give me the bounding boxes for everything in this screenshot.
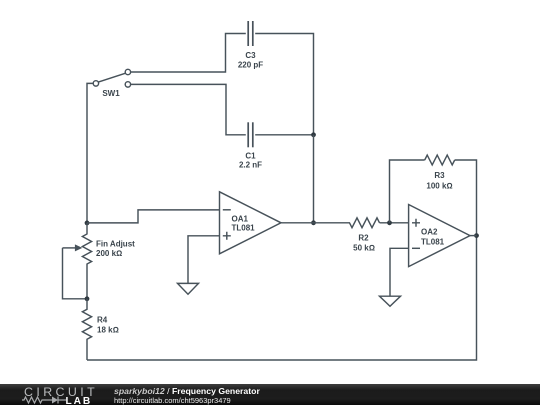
svg-text:C3: C3: [245, 51, 256, 60]
junction: OA1 output node: [311, 220, 316, 225]
svg-text:R4: R4: [97, 315, 108, 324]
wire: SW1 throw 2 to C1 left plate: [131, 84, 246, 134]
junction: C1/C3 right node: [311, 132, 316, 137]
junction: R2 / feedback node: [387, 220, 392, 225]
footer title: [114, 386, 260, 396]
svg-text:SW1: SW1: [102, 89, 120, 98]
wire: OA2 inverting input to ground: [390, 248, 409, 296]
resistor R3 100 kOhm: [425, 155, 455, 165]
svg-text:50 kΩ: 50 kΩ: [353, 243, 375, 252]
wire: pot top node to OA1 inverting input: [87, 210, 220, 223]
wire: bottom rail from R4 to OA2 output: [87, 236, 477, 360]
junction: pot bottom / R4 top: [85, 296, 90, 301]
svg-text:OA1: OA1: [232, 214, 249, 223]
wire: C1 right plate to vertical rail: [255, 134, 313, 136]
wire: OA2 output stub: [470, 235, 477, 237]
resistor R4 18 kOhm: [82, 299, 91, 360]
wire: SW1 common stub and left rail down to pot: [87, 83, 93, 223]
wire: SW1 throw 1 to C3 left plate: [131, 34, 246, 73]
svg-text:18 kΩ: 18 kΩ: [97, 325, 119, 334]
wire: R2 to OA2 non-inverting input: [380, 222, 409, 224]
svg-text:2.2 nF: 2.2 nF: [239, 161, 262, 170]
wire: R3 right down to OA2 output node: [455, 160, 477, 236]
junction: left rail / pot top: [85, 221, 90, 226]
resistor R2 50 kOhm: [350, 218, 380, 228]
svg-text:Fin Adjust: Fin Adjust: [96, 239, 135, 248]
footer url: [114, 396, 231, 405]
CircuitLab logo: [24, 385, 98, 399]
svg-text:C1: C1: [245, 151, 256, 160]
wire: OA1 output to R2: [281, 222, 350, 224]
svg-text:TL081: TL081: [232, 224, 256, 233]
potentiometer Fin Adjust 200 kOhm: [63, 223, 92, 299]
svg-text:TL081: TL081: [421, 237, 445, 246]
wire: vertical rail down to OA1 output row: [313, 135, 315, 223]
junction: OA2 output node: [474, 233, 479, 238]
wire: OA1 non-inverting input to ground: [188, 236, 220, 284]
svg-text:R3: R3: [434, 171, 445, 180]
wire: C3 right plate to vertical rail: [255, 34, 313, 135]
svg-text:100 kΩ: 100 kΩ: [426, 181, 452, 190]
svg-text:200 kΩ: 200 kΩ: [96, 249, 122, 258]
capacitor C3: [248, 21, 253, 46]
footer bar: [0, 384, 540, 405]
svg-text:220 pF: 220 pF: [238, 60, 263, 69]
capacitor C1: [248, 122, 253, 147]
op-amp OA1: [220, 192, 282, 254]
svg-text:R2: R2: [358, 233, 369, 242]
op-amp OA2: [409, 205, 470, 267]
switch SW1: [93, 69, 130, 87]
ground (OA2): [380, 296, 401, 306]
wire: feedback up to R3: [390, 160, 425, 223]
svg-text:OA2: OA2: [421, 228, 438, 237]
ground (OA1): [178, 283, 199, 294]
